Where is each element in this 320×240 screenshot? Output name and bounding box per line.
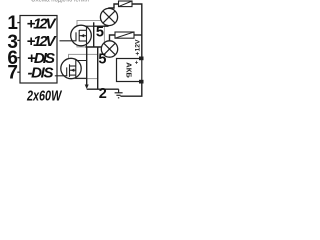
svg-text:+: +	[135, 61, 139, 67]
svg-text:АКБ: АКБ	[125, 62, 132, 78]
svg-text:+12V: +12V	[27, 16, 58, 33]
svg-text:2: 2	[99, 86, 107, 102]
svg-text:+12V: +12V	[27, 33, 58, 50]
svg-text:5: 5	[96, 24, 104, 40]
svg-text:7: 7	[7, 63, 18, 84]
svg-text:+12V: +12V	[135, 39, 142, 56]
svg-text:Схема подключения: Схема подключения	[31, 0, 89, 4]
svg-text:2x60W: 2x60W	[26, 89, 62, 105]
svg-text:-DIS: -DIS	[28, 65, 54, 82]
svg-text:5: 5	[98, 52, 106, 68]
